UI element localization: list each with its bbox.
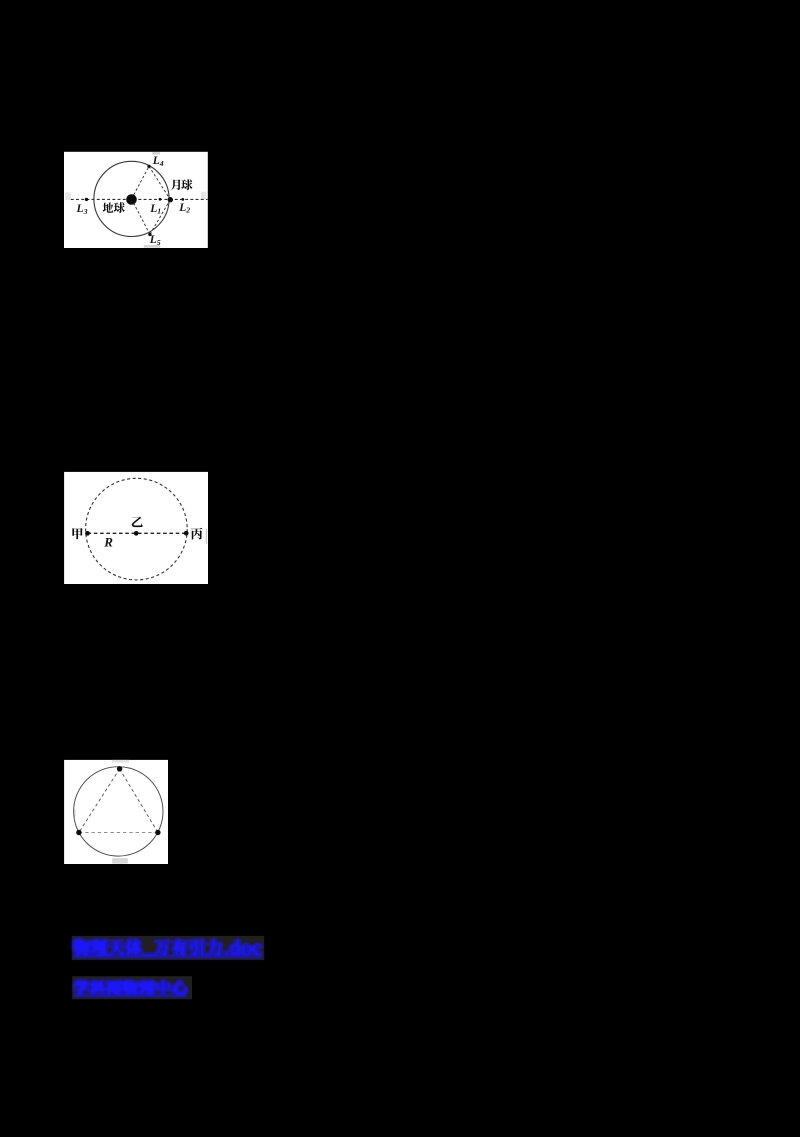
svg-text:L: L (76, 203, 84, 215)
svg-text:4: 4 (159, 159, 164, 168)
svg-text:L: L (149, 234, 157, 246)
svg-text:1: 1 (157, 207, 161, 216)
svg-text:R: R (103, 535, 113, 550)
svg-text:L: L (152, 155, 160, 167)
svg-text:3: 3 (83, 207, 88, 216)
svg-text:L: L (178, 202, 186, 214)
svg-text:L: L (149, 203, 157, 215)
svg-text:5: 5 (157, 238, 161, 247)
svg-text:2: 2 (185, 206, 190, 215)
